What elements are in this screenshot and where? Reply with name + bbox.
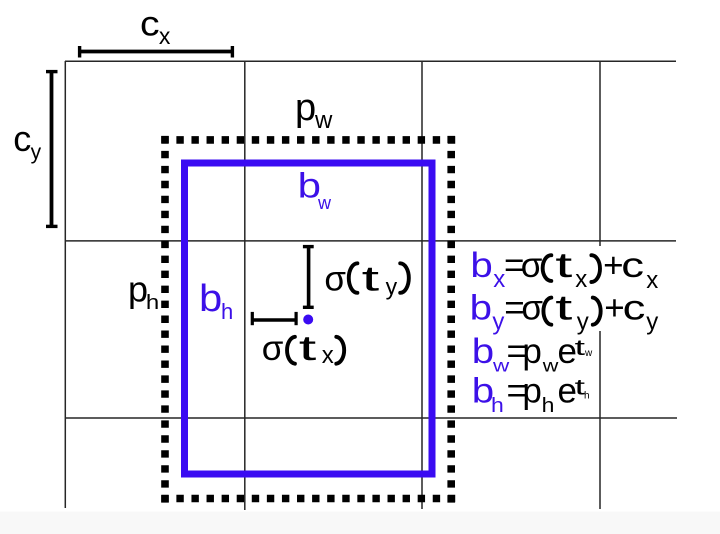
svg-text:p: p: [522, 332, 541, 371]
svg-text:h: h: [221, 299, 233, 324]
svg-text:c: c: [13, 118, 31, 159]
svg-text:t: t: [299, 328, 317, 367]
svg-text:x: x: [646, 267, 658, 294]
svg-text:y: y: [577, 308, 589, 335]
svg-text:c: c: [621, 245, 644, 285]
svg-text:t: t: [555, 288, 572, 327]
grid horizontal line 1: [65, 60, 676, 62]
sigma(t_y) open paren: [349, 263, 358, 293]
grid vertical line 2: [244, 61, 246, 510]
svg-text:t: t: [555, 245, 572, 284]
c_y ruler top tick: [46, 70, 58, 73]
svg-text:w: w: [584, 348, 593, 359]
anchor prior box p (dotted) : right edge: [447, 136, 455, 503]
equation 1 open paren: [543, 255, 552, 281]
sigma(t_y) ruler bottom tick: [303, 306, 314, 309]
svg-text:h: h: [542, 393, 555, 416]
c_x ruler left tick: [78, 46, 81, 58]
svg-text:t: t: [362, 259, 380, 298]
grid vertical line 3: [421, 61, 423, 509]
sigma(t_y) ruler top tick: [303, 245, 314, 248]
equation 2 open paren: [543, 298, 551, 325]
grid vertical line 4 upper segment: [599, 61, 601, 246]
svg-text:p: p: [522, 372, 541, 411]
svg-text:w: w: [314, 107, 333, 134]
svg-text:x: x: [159, 23, 171, 49]
anchor prior box p (dotted) : bottom edge: [161, 495, 455, 503]
svg-text:x: x: [322, 342, 334, 369]
svg-text:h: h: [584, 391, 590, 402]
svg-text:p: p: [295, 87, 316, 129]
anchor prior box p (dotted) : left edge: [161, 136, 169, 503]
svg-text:c: c: [623, 288, 646, 328]
bottom gray strip: [0, 512, 720, 534]
sigma(t_x) close paren: [336, 337, 344, 364]
svg-text:b: b: [470, 288, 492, 327]
svg-text:b: b: [472, 331, 494, 370]
box center point (blue dot): [303, 315, 313, 325]
svg-text:y: y: [31, 141, 42, 164]
svg-text:σ: σ: [521, 289, 543, 328]
svg-text:b: b: [470, 245, 492, 284]
sigma(t_y) close paren: [400, 263, 409, 293]
svg-text:σ: σ: [324, 260, 346, 299]
c_x ruler right tick: [231, 46, 234, 58]
svg-text:b: b: [199, 278, 222, 320]
sigma(t_y) offset ruler line: [307, 247, 311, 308]
svg-text:h: h: [146, 291, 159, 314]
c_x ruler line: [79, 50, 233, 54]
svg-text:c: c: [140, 4, 160, 44]
sigma(t_x) open paren: [287, 337, 295, 364]
svg-text:w: w: [542, 356, 559, 376]
svg-text:t: t: [575, 335, 586, 360]
c_y ruler line: [50, 71, 54, 227]
equation 1 close paren: [591, 255, 600, 282]
svg-text:y: y: [646, 308, 658, 335]
svg-text:σ: σ: [521, 246, 543, 285]
grid horizontal line 2: [65, 240, 676, 242]
predicted bounding box b (blue): [185, 163, 433, 474]
svg-text:x: x: [575, 266, 587, 293]
sigma(t_x) ruler left tick: [251, 312, 254, 325]
equation 2 close paren: [593, 298, 601, 325]
svg-text:σ: σ: [262, 329, 284, 368]
sigma(t_x) ruler right tick: [295, 312, 298, 325]
sigma(t_x) offset ruler line: [251, 318, 297, 321]
grid vertical line 1: [64, 61, 66, 508]
c_y ruler bottom tick: [46, 225, 58, 228]
anchor prior box p (dotted) : top edge: [161, 136, 455, 144]
svg-text:w: w: [317, 193, 332, 213]
svg-text:h: h: [491, 393, 504, 416]
grid vertical line 4 lower segment: [599, 331, 601, 509]
grid horizontal line 3: [65, 417, 677, 419]
svg-text:y: y: [386, 274, 398, 300]
